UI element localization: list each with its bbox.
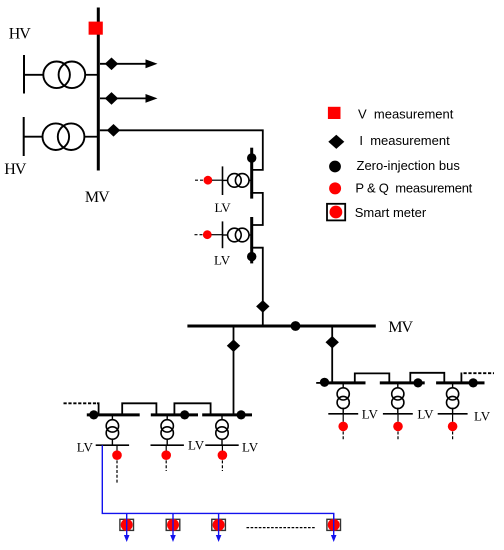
LV busbar SL2 xyxy=(151,444,184,446)
P&Q measurement red dot SL1 xyxy=(112,450,122,460)
svg-text:LV: LV xyxy=(474,408,491,423)
wire red dot to LV bar 2 xyxy=(212,234,223,236)
transformer T2 xyxy=(43,123,85,150)
wire red dot to LV bar 1 xyxy=(212,179,223,181)
zero-injection dot on R1 xyxy=(320,378,329,387)
wire B2 down to MV bus xyxy=(250,248,262,325)
P&Q measurement red dot (LV branch 2) xyxy=(203,230,212,239)
P&Q measurement red dot SL2 xyxy=(161,450,171,460)
wire T1 to MV bus xyxy=(85,74,97,76)
wire T5 to LV bar xyxy=(342,408,344,414)
wire HV1 to transformer T1 xyxy=(24,74,44,76)
svg-text:I measurement: I measurement xyxy=(359,133,450,148)
zero-injection bus dot on B2 xyxy=(247,252,256,261)
HV busbar 1 xyxy=(23,55,25,94)
feeder arrow 2 xyxy=(100,94,158,103)
zero-injection bus dot on trunk xyxy=(291,321,301,331)
LV busbar 1 (middle) xyxy=(222,166,224,195)
stub wire left of bus R1 xyxy=(316,382,323,384)
svg-text:MV: MV xyxy=(388,319,413,336)
transformer T7 xyxy=(447,388,459,409)
wire riser R1 to R2 xyxy=(355,373,390,383)
dashed feeder below dot SL1 xyxy=(116,460,118,484)
wire LV bar to P&Q dot SR2 xyxy=(397,414,399,422)
dashed feeder below dot SL3 xyxy=(221,460,223,471)
LV busbar SR1 xyxy=(328,413,358,415)
wire T8 to LV bar xyxy=(111,440,113,446)
I measurement diamond D1 xyxy=(105,58,118,71)
dashed feeder below dot SR1 xyxy=(342,432,344,441)
transformer T3 xyxy=(228,174,249,188)
MV/LV bus B2 (middle) xyxy=(250,217,253,263)
smart meter M2 xyxy=(166,519,180,531)
wire T7 to LV bar xyxy=(452,408,454,414)
transformer T4 xyxy=(228,228,249,242)
main feeder wire to middle section xyxy=(100,130,263,170)
substation SL3: wire bus to transformer T10 xyxy=(221,416,223,420)
LV busbar SR3 xyxy=(438,413,468,415)
blue arrow M4 xyxy=(331,535,337,542)
dashed continuation wire (right) xyxy=(464,372,495,374)
blue arrow M1 xyxy=(124,535,130,542)
MV trunk bus (horizontal) xyxy=(187,325,375,328)
I measurement diamond D4 xyxy=(256,300,269,313)
I measurement diamond D6 xyxy=(326,336,339,349)
wire T2 to MV bus xyxy=(84,136,97,138)
wire T4 to bus B2 xyxy=(249,234,251,236)
svg-text:Zero-injection bus: Zero-injection bus xyxy=(357,158,461,173)
MV bus R2 xyxy=(380,381,425,384)
wire riser L1 to L2 xyxy=(122,403,156,415)
transformer T1 xyxy=(43,62,85,89)
wire LV bar to P&Q dot SL2 xyxy=(165,445,167,451)
zero-injection bus dot on B1 xyxy=(247,153,256,162)
MV bus L2 xyxy=(151,413,198,416)
substation SL1: wire bus to transformer T8 xyxy=(111,416,113,420)
MV bus R3 xyxy=(436,381,484,384)
P&Q measurement red dot SR2 xyxy=(393,422,403,432)
LV busbar SL3 xyxy=(205,444,238,446)
wire LV bar to P&Q dot SL1 xyxy=(116,445,118,451)
blue drop wire to smart meter M1 xyxy=(126,513,128,536)
wire riser L2 to L3 xyxy=(174,403,210,415)
transformer T10 xyxy=(216,420,228,440)
zero-injection dot on R3 xyxy=(469,378,478,387)
zero-injection dot on L2 xyxy=(180,410,189,419)
I measurement diamond D2 xyxy=(105,92,118,105)
wire LV bar to P&Q dot SR3 xyxy=(452,414,454,422)
wire dashed end down to bus L1 xyxy=(97,403,99,415)
I measurement diamond D5 xyxy=(227,339,240,352)
MV bus L1 xyxy=(87,413,140,416)
left feeder wire down xyxy=(233,328,235,415)
blue drop wire to smart meter M3 xyxy=(218,513,220,536)
P&Q measurement red dot SR1 xyxy=(338,422,348,432)
blue arrow M2 xyxy=(170,535,176,542)
wire HV2 to transformer T2 xyxy=(24,136,43,138)
wire jog B1 to B2 xyxy=(250,193,262,225)
wire T6 to LV bar xyxy=(397,408,399,414)
MV/LV bus B1 (middle) xyxy=(250,148,253,199)
dashed feeder below dot SR2 xyxy=(397,432,399,441)
LV busbar SL1 xyxy=(96,444,129,446)
transformer T5 xyxy=(337,388,349,409)
wire riser R3 to dashed continuation xyxy=(460,373,462,383)
svg-text:LV: LV xyxy=(188,438,205,453)
svg-text:HV: HV xyxy=(9,26,32,43)
feeder arrow 1 xyxy=(100,59,158,68)
wire T9 to LV bar xyxy=(166,440,168,446)
LV busbar 2 (middle) xyxy=(222,221,224,248)
dashed feeder below dot SL2 xyxy=(165,460,167,471)
wire LV bar 2 to transformer T4 xyxy=(223,234,228,236)
wire LV bar to P&Q dot SR1 xyxy=(342,414,344,422)
dashed stub left of red dot 1 xyxy=(195,179,204,181)
legend P&Q symbol xyxy=(329,182,341,194)
P&Q measurement red dot (LV branch 1) xyxy=(204,176,213,185)
svg-text:LV: LV xyxy=(215,200,232,215)
svg-text:LV: LV xyxy=(362,407,379,422)
wire T3 to bus B1 xyxy=(249,179,251,181)
I measurement diamond D3 xyxy=(107,124,120,137)
LV busbar SR2 xyxy=(383,413,413,415)
blue drop wire to smart meter M2 xyxy=(172,513,174,536)
MV bus R1 xyxy=(322,381,366,384)
blue arrow M3 xyxy=(216,535,222,542)
zero-injection dot on L3 xyxy=(237,410,246,419)
dashed feeder below dot SR3 xyxy=(452,432,454,441)
svg-text:MV: MV xyxy=(85,189,110,206)
V measurement (red square) xyxy=(89,22,103,35)
svg-text:LV: LV xyxy=(417,407,434,422)
smart meter M3 xyxy=(212,519,226,531)
wire LV bar to P&Q dot SL3 xyxy=(221,445,223,451)
smart meter M1 xyxy=(120,519,134,531)
wire T10 to LV bar xyxy=(221,440,223,446)
dashed continuation wire (left) xyxy=(64,402,98,404)
MV main bus A (vertical) xyxy=(97,8,100,171)
wire LV bar to transformer T3 xyxy=(223,179,228,181)
blue feeder wire from LV bar SL1 xyxy=(102,445,333,518)
svg-text:LV: LV xyxy=(77,439,94,454)
substation SL2: wire bus to transformer T9 xyxy=(166,416,168,420)
smart meter M4 xyxy=(327,519,341,531)
dashed continuation between M3 and M4 xyxy=(247,527,316,529)
svg-text:V measurement: V measurement xyxy=(358,107,454,122)
substation SR3: wire bus to transformer T7 xyxy=(452,384,454,388)
blue drop wire to smart meter M4 xyxy=(333,513,335,536)
svg-text:LV: LV xyxy=(214,252,231,267)
zero-injection dot on R2 xyxy=(413,378,422,387)
svg-text:Smart meter: Smart meter xyxy=(355,205,427,220)
P&Q measurement red dot SR3 xyxy=(448,422,458,432)
svg-text:LV: LV xyxy=(242,439,259,454)
substation SR1: wire bus to transformer T5 xyxy=(342,384,344,388)
transformer T8 xyxy=(106,420,118,440)
MV bus L3 xyxy=(202,413,252,416)
legend zero-injection symbol xyxy=(329,161,341,173)
substation SR2: wire bus to transformer T6 xyxy=(397,384,399,388)
dashed stub left of red dot 2 xyxy=(195,234,204,236)
svg-text:P & Q measurement: P & Q measurement xyxy=(355,180,472,195)
svg-text:HV: HV xyxy=(4,161,27,178)
P&Q measurement red dot SL3 xyxy=(218,450,228,460)
transformer T6 xyxy=(392,388,404,409)
wire riser R2 to R3 xyxy=(410,373,444,383)
HV busbar 2 xyxy=(23,117,25,156)
legend I measurement symbol xyxy=(328,135,344,149)
legend V measurement symbol xyxy=(328,107,341,119)
right feeder wire down xyxy=(331,328,333,383)
legend smart meter symbol xyxy=(327,204,345,221)
zero-injection dot on L1 xyxy=(89,410,98,419)
transformer T9 xyxy=(161,420,173,440)
